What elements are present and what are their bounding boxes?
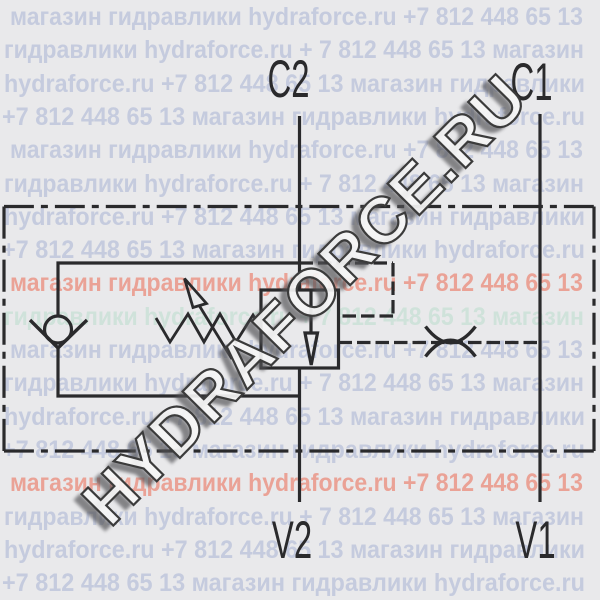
pilot line into valve box	[339, 314, 394, 317]
valve assembly envelope (dash-dot boundary)	[4, 205, 594, 208]
svg-text:гидравлики hydraforce.ru + 7 8: гидравлики hydraforce.ru + 7 812 448 65 …	[4, 170, 584, 198]
orifice restriction upper arc	[426, 327, 476, 343]
wire: C1-V1 through line	[538, 114, 541, 502]
check valve ball	[45, 316, 72, 343]
adjustment arrow shaft	[200, 306, 233, 359]
check valve seat	[30, 320, 87, 348]
relief valve flow arrow head	[305, 333, 318, 365]
svg-text:магазин гидравлики hydraforce.: магазин гидравлики hydraforce.ru +7 812 …	[10, 3, 583, 31]
relief valve flow arrow shaft	[309, 291, 312, 333]
svg-text:hydraforce.ru +7 812 448 65 13: hydraforce.ru +7 812 448 65 13 магазин г…	[4, 203, 585, 231]
port label V2	[272, 511, 312, 570]
svg-text:V1: V1	[515, 511, 555, 570]
wire: port V2 line	[298, 368, 301, 502]
svg-text:+7 812 448 65 13 магазин гидра: +7 812 448 65 13 магазин гидравлики hydr…	[2, 569, 585, 597]
adjustment arrow head	[185, 279, 207, 308]
external pilot line with orifice to V1	[339, 341, 541, 344]
spring (relief setting)	[156, 314, 262, 342]
port label C1	[511, 53, 553, 112]
orifice restriction lower arc	[426, 340, 476, 356]
svg-text:C2: C2	[268, 50, 310, 109]
wire: check valve lower branch	[58, 348, 300, 396]
port label C2	[268, 50, 310, 109]
svg-text:hydraforce.ru +7 812 448 65 13: hydraforce.ru +7 812 448 65 13 магазин г…	[4, 403, 585, 431]
diagonal watermark HYDRAFORCE.RU (decorative)	[60, 66, 534, 545]
svg-text:гидравлики hydraforce.ru + 7 8: гидравлики hydraforce.ru + 7 812 448 65 …	[4, 369, 584, 397]
svg-text:+7 812 448 65 13 магазин гидра: +7 812 448 65 13 магазин гидравлики hydr…	[2, 436, 585, 464]
wire: check valve upper branch	[58, 263, 300, 315]
wire: port C2 line	[298, 116, 301, 290]
port label V1	[515, 511, 555, 570]
pilot line from C2 junction	[300, 261, 394, 264]
pilot line vertical segment	[391, 263, 394, 316]
relief valve main stage box	[261, 290, 339, 368]
svg-text:V2: V2	[272, 511, 312, 570]
